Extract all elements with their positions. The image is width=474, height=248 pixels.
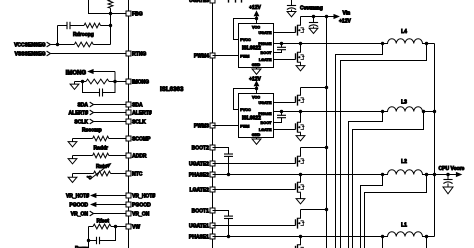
pin BOOT2 of U1 <box>192 145 216 152</box>
svg-text:UGATE: UGATE <box>258 31 271 35</box>
svg-text:LGATE: LGATE <box>259 58 272 62</box>
pin VR_ON of U1 <box>126 211 150 218</box>
svg-text:SDA: SDA <box>132 102 143 108</box>
wire BOOT2 <box>213 148 229 155</box>
svg-text:GND: GND <box>252 133 261 137</box>
node L2 left <box>381 173 384 176</box>
node Vcore cap tap <box>446 173 449 176</box>
wire IMONG to pin <box>115 81 126 83</box>
wire stub (cut) top B <box>235 0 237 3</box>
capacitor Cboot3 <box>274 112 287 123</box>
svg-text:BOOT: BOOT <box>261 121 273 125</box>
wire BOOT1 <box>213 211 229 217</box>
wire Vin rail <box>326 17 328 248</box>
transistor Q2 high-side <box>296 148 305 167</box>
svg-text:VCC: VCC <box>252 95 260 99</box>
inductor L3 <box>383 107 435 112</box>
svg-text:SCOMP: SCOMP <box>132 136 151 142</box>
transistor Q4L low-side <box>296 44 305 63</box>
pin PGOOD of U1 <box>126 202 152 209</box>
svg-text:BOOT: BOOT <box>261 51 273 55</box>
svg-text:CPU Vcore: CPU Vcore <box>439 166 465 172</box>
transistor Q4 high-side <box>296 17 305 36</box>
pin SCOMP of U1 <box>126 136 152 143</box>
ground NTC <box>68 174 77 183</box>
resistor Rfset <box>89 224 126 229</box>
label L2 <box>401 159 407 165</box>
svg-text:NTC: NTC <box>132 171 143 177</box>
transistor Q1 high-side <box>296 210 305 229</box>
svg-text:Rdroopg: Rdroopg <box>73 32 94 38</box>
svg-text:+12V: +12V <box>249 76 261 82</box>
svg-text:SCLK: SCLK <box>74 119 88 125</box>
node VW <box>114 225 117 228</box>
svg-text:FBG: FBG <box>132 11 143 17</box>
capacitor Cboot1 <box>224 216 233 236</box>
svg-text:L4: L4 <box>401 29 407 35</box>
wire FB network top left <box>89 0 126 14</box>
wire L1 right sense <box>426 237 428 248</box>
ground Cvsumng <box>287 12 296 17</box>
svg-text:PGOOD: PGOOD <box>69 203 88 209</box>
node L3 left <box>381 110 384 113</box>
node phase4 fet junction <box>299 42 302 45</box>
wire PVCC U2 loop <box>234 19 257 40</box>
svg-text:VCC: VCC <box>252 25 260 29</box>
label L4 <box>401 29 407 35</box>
svg-text:IMONG: IMONG <box>132 79 149 85</box>
inductor L1 <box>383 232 435 237</box>
wire VCC U3 <box>256 89 258 94</box>
driver U2 labels <box>240 25 272 67</box>
wire phase3 node <box>274 111 383 113</box>
inductor L2 <box>383 170 435 175</box>
wire L4 left sense <box>336 44 383 248</box>
port PGOOD <box>69 203 125 209</box>
power +12V (driver U3) <box>249 76 261 88</box>
node Vin feed phase1 <box>325 208 328 211</box>
transistor Q2L low-side <box>296 175 305 193</box>
label CPU Vcore <box>439 166 465 172</box>
IC U1 ISL6363 controller right edge <box>212 0 214 248</box>
svg-text:UGATE1: UGATE1 <box>189 223 209 229</box>
power +12V (driver U2) <box>249 5 261 18</box>
label Rntc <box>96 164 107 170</box>
driver U3 ISL6622 body <box>239 94 274 138</box>
node phase3 fet junction <box>299 110 302 113</box>
port VR_HOT# <box>66 194 126 200</box>
svg-text:°C: °C <box>87 175 92 180</box>
svg-text:PVCC: PVCC <box>240 108 251 112</box>
wire Rdroopg right leg <box>110 26 112 45</box>
node L2 right <box>425 173 428 176</box>
transistor Q3L low-side <box>296 112 305 133</box>
svg-text:VW: VW <box>132 224 140 230</box>
pin ALERT# of U1 <box>126 110 152 117</box>
ground U2 <box>252 68 261 75</box>
wire Vin feed phase2 <box>301 147 327 149</box>
svg-text:+12V: +12V <box>339 19 351 25</box>
label L1 <box>401 223 407 229</box>
svg-text:UGATE: UGATE <box>258 101 271 105</box>
resistor IMONG <box>75 79 116 84</box>
wire parallel RC left leg <box>57 26 59 45</box>
pin ADDR of U1 <box>126 153 147 160</box>
pin LGATE2 of U1 <box>190 187 216 194</box>
wire L2 left sense <box>361 175 383 248</box>
wire VCCSENSEG <box>51 44 75 46</box>
label Vin <box>343 10 351 16</box>
port VR_ON <box>71 211 126 218</box>
ground Cout <box>443 187 453 194</box>
svg-text:Rscomp: Rscomp <box>82 128 102 134</box>
port VCCSENSEG <box>14 42 50 48</box>
pin IMONG of U1 <box>126 79 150 86</box>
node FBG junction <box>109 12 112 15</box>
ground IMONG <box>70 82 79 90</box>
svg-text:L2: L2 <box>401 159 407 165</box>
pin SDA of U1 <box>126 102 144 109</box>
wire phase2 node <box>213 174 383 176</box>
node L4 left <box>381 42 384 45</box>
node VCC U2 <box>255 17 258 20</box>
svg-text:LGATE2: LGATE2 <box>190 187 210 193</box>
svg-text:Rfset: Rfset <box>97 218 110 224</box>
wire Vin feed phase4 <box>301 16 327 18</box>
ground SCOMP <box>68 139 77 147</box>
capacitor IMONG (parallel) <box>83 82 116 97</box>
capacitor Cin4 <box>309 17 318 29</box>
pin PHASE1 of U1 <box>189 234 216 241</box>
node phase1 boot tap <box>227 235 230 238</box>
svg-text:ALERT#: ALERT# <box>132 110 152 116</box>
wire L1 left sense <box>382 237 384 248</box>
svg-text:Raddr: Raddr <box>94 145 109 151</box>
label Rfset <box>97 218 110 224</box>
wire L3 right sense <box>353 112 424 248</box>
pin BOOT1 of U1 <box>192 208 216 215</box>
wire UGATE1 <box>213 225 296 227</box>
ground U3 <box>252 138 261 145</box>
capacitor Cvsumng <box>287 0 296 12</box>
wire PWM3 <box>213 125 239 127</box>
label L3 <box>401 100 407 106</box>
wire Rfset left leg <box>88 227 90 241</box>
svg-text:UGATE3: UGATE3 <box>189 0 209 4</box>
thermistor Rntc <box>73 164 126 180</box>
node phase4 boot tap <box>280 42 283 45</box>
svg-text:+12V: +12V <box>249 5 261 11</box>
node Cin4 tap <box>312 15 315 18</box>
resistor Rscomp <box>73 136 126 141</box>
wire Vin feed phase1 <box>301 209 327 211</box>
transistor Q1L low-side (cut) <box>296 237 305 248</box>
wire PWM4 <box>213 55 239 57</box>
IC U1 ISL6363 controller left edge <box>128 0 130 248</box>
wire phase1 node <box>213 236 383 238</box>
port ALERT# <box>69 110 126 116</box>
node L3 rail junction <box>433 110 436 113</box>
wire stub (cut) top A <box>228 0 230 3</box>
wire UGATE4 <box>274 32 296 34</box>
svg-text:PGOOD: PGOOD <box>132 202 151 208</box>
wire PVCC U3 loop <box>234 89 257 110</box>
svg-text:ADDR: ADDR <box>132 153 147 159</box>
svg-text:Cvsumng: Cvsumng <box>300 5 323 11</box>
capacitor Cboot2 <box>224 154 233 175</box>
resistor Raddr <box>73 153 126 158</box>
label Rdroopg <box>73 32 94 38</box>
svg-text:ISL6622: ISL6622 <box>242 45 261 51</box>
port CPU Vcore arrow <box>435 173 462 177</box>
wire VSSSENSEG to RTNG <box>51 53 126 55</box>
port SDA <box>77 102 125 108</box>
ground phase3 <box>296 133 305 141</box>
node L1 right <box>425 235 428 238</box>
wire Vcore rail <box>434 44 436 237</box>
node IMONG B <box>113 80 116 83</box>
capacitor Cboot4 <box>274 44 287 53</box>
svg-text:PWM3: PWM3 <box>194 123 209 129</box>
ground Cin4 <box>309 28 318 33</box>
node phase3 boot tap <box>280 110 283 113</box>
wire L2 right sense <box>365 175 427 248</box>
port VSSSENSEG <box>15 51 51 57</box>
svg-text:ALERT#: ALERT# <box>69 110 89 116</box>
pin SCLK of U1 <box>126 119 147 126</box>
node L2 rail junction <box>433 173 436 176</box>
pin VR_HOT# of U1 <box>126 193 156 200</box>
svg-text:Vin: Vin <box>343 10 351 16</box>
label IMONG signal <box>66 70 87 76</box>
svg-text:PWM4: PWM4 <box>194 53 209 59</box>
svg-text:IMONG: IMONG <box>66 70 87 76</box>
node L4 right <box>425 42 428 45</box>
svg-text:L1: L1 <box>401 223 407 229</box>
label +12V <box>339 19 351 25</box>
wire LGATE2 <box>213 189 296 191</box>
port SCLK <box>74 119 125 125</box>
svg-text:PHASE2: PHASE2 <box>189 172 209 178</box>
svg-text:ISL6363: ISL6363 <box>160 86 184 93</box>
svg-text:RTNG: RTNG <box>132 51 146 57</box>
svg-text:BOOT2: BOOT2 <box>192 145 209 151</box>
svg-text:VR_ON: VR_ON <box>132 211 150 217</box>
wire phase4 node <box>274 43 383 45</box>
svg-text:LGATE: LGATE <box>259 128 272 132</box>
label Cvsumng <box>300 5 323 11</box>
driver U3 labels <box>240 95 272 137</box>
ground ADDR <box>68 156 77 164</box>
wire L4 right sense <box>341 44 427 248</box>
wire VCC U2 <box>256 19 258 24</box>
svg-text:ISL6622: ISL6622 <box>242 115 261 121</box>
label Rscomp <box>82 128 102 134</box>
pin PWM3 of U1 <box>194 123 216 130</box>
svg-text:PWM: PWM <box>240 54 249 58</box>
wire FBG column <box>110 14 112 26</box>
svg-text:GND: GND <box>252 63 261 67</box>
svg-text:VR_HOT#: VR_HOT# <box>132 193 155 199</box>
svg-text:VSSSENSEG: VSSSENSEG <box>15 51 46 57</box>
pin (cut off) of U1 top right <box>189 0 215 4</box>
IC U1 label ISL6363 <box>160 86 184 93</box>
node Vin feed phase2 <box>325 146 328 149</box>
port Vin arrow <box>327 15 339 19</box>
transistor Q3 high-side <box>296 88 305 106</box>
ground phase2 <box>296 193 305 204</box>
label (cut) bottom left <box>75 246 89 248</box>
capacitor droop (parallel) <box>58 22 85 29</box>
pin PHASE2 of U1 <box>189 172 216 179</box>
svg-text:VR_HOT#: VR_HOT# <box>66 194 89 200</box>
svg-text:PVCC: PVCC <box>240 38 251 42</box>
driver U2 ISL6622 body <box>239 24 274 68</box>
node Vin feed phase3 <box>325 86 328 89</box>
pin PWM4 of U1 <box>194 53 216 60</box>
pin UGATE2 of U1 <box>189 161 216 168</box>
node Rdroopg right <box>109 24 112 27</box>
node phase1 fet junction <box>299 235 302 238</box>
node phase2 fet junction <box>299 173 302 176</box>
svg-text:VR_ON: VR_ON <box>71 212 89 218</box>
node VCC U3 <box>255 87 258 90</box>
capacitor Cfset <box>89 227 116 245</box>
wire Vin feed phase3 <box>301 87 327 89</box>
svg-text:BOOT1: BOOT1 <box>192 208 209 214</box>
resistor Rdroopg (parallel) <box>84 23 111 28</box>
wire LGATE3 <box>274 129 296 131</box>
capacitor Cout <box>443 175 452 188</box>
node Vin top <box>325 15 328 18</box>
wire L3 left sense <box>349 112 383 248</box>
wire UGATE3 <box>274 102 296 104</box>
node L3 right <box>422 110 425 113</box>
wire UGATE2 <box>213 163 296 165</box>
svg-text:PHASE1: PHASE1 <box>189 234 209 240</box>
node Rfset bottom <box>87 239 90 242</box>
node L1 left <box>381 235 384 238</box>
svg-text:PWM: PWM <box>240 124 249 128</box>
node phase2 boot tap <box>227 173 230 176</box>
ground phase4 <box>296 63 305 71</box>
node VCCSENSEG <box>56 43 59 46</box>
pin NTC of U1 <box>126 171 143 178</box>
label Raddr <box>94 145 109 151</box>
svg-text:SCLK: SCLK <box>132 119 146 125</box>
pin VW of U1 <box>126 224 141 231</box>
pin RTNG of U1 <box>126 51 147 58</box>
wire IMONG arrow <box>89 70 116 82</box>
resistor series VCCSENSEG <box>74 42 110 47</box>
pin UGATE1 of U1 <box>189 223 216 230</box>
svg-text:VCCSENSEG: VCCSENSEG <box>14 42 46 48</box>
pin FBG of U1 <box>126 11 143 18</box>
wire stub (cut) top C <box>241 0 243 3</box>
svg-text:UGATE2: UGATE2 <box>189 161 209 167</box>
wire to lower network (cut) <box>88 241 90 248</box>
inductor L4 <box>383 39 435 44</box>
svg-text:SDA: SDA <box>77 102 88 108</box>
resistor (cut off) above FBG <box>108 0 113 14</box>
svg-text:L3: L3 <box>401 100 407 106</box>
wire LGATE4 <box>274 59 296 61</box>
node IMONG A <box>81 80 84 83</box>
